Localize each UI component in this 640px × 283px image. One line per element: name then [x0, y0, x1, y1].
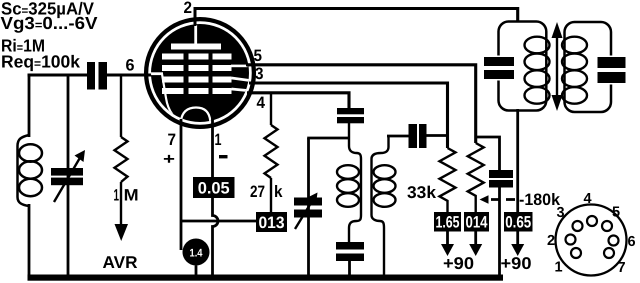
capacitor IF1 top — [337, 108, 364, 123]
trimmer CV2 wire — [307, 138, 310, 276]
IF2 primary capacitor — [484, 57, 514, 79]
tube V1 pin3 lead white — [232, 78, 251, 81]
capacitor C5 — [489, 170, 513, 188]
svg-text:1: 1 — [215, 131, 222, 149]
wire grid return with hop — [181, 220, 256, 223]
coil L1 antenna — [18, 135, 43, 206]
tube V1 pin5 lead white — [231, 65, 248, 68]
wire C4 to R1 — [427, 134, 448, 137]
IF2 transformer secondary box — [565, 22, 617, 112]
svg-text:M: M — [124, 187, 139, 205]
svg-text:0.05: 0.05 — [198, 179, 230, 197]
trimmer CV2 arrow — [295, 193, 318, 230]
svg-text:3: 3 — [557, 205, 565, 221]
svg-text:7: 7 — [168, 131, 177, 149]
svg-text:1: 1 — [114, 187, 120, 205]
variable capacitor CV1 arrow — [54, 150, 85, 202]
svg-text:4: 4 — [257, 94, 266, 112]
svg-text:+: + — [163, 151, 175, 168]
wire antenna branch to bus — [28, 204, 31, 276]
svg-text:5: 5 — [254, 47, 263, 65]
tube V1 pin4 lead white — [232, 89, 248, 91]
wire IF2 primary bottom down — [516, 109, 519, 217]
svg-text:3: 3 — [255, 65, 264, 83]
IF1 transformer secondary — [372, 136, 396, 276]
socket pin mid-left — [566, 235, 576, 245]
socket pin upper-left — [573, 221, 583, 231]
svg-text:0.65: 0.65 — [505, 214, 531, 232]
svg-text:27: 27 — [250, 183, 265, 201]
tube V1 anode plate — [150, 25, 250, 128]
socket pin low-right — [604, 248, 614, 258]
tube V1 grids — [162, 54, 232, 95]
wire pin2 to top rail — [194, 7, 197, 26]
capacitor box 013 — [256, 212, 287, 232]
svg-text:33k: 33k — [407, 183, 437, 202]
wire IF1 bottom to bus — [348, 261, 351, 276]
tube socket — [556, 205, 627, 276]
svg-text:2: 2 — [184, 0, 193, 17]
wire C5 to bus — [498, 188, 501, 277]
svg-text:6: 6 — [126, 57, 135, 75]
wire IF1 secondary to C4 — [387, 135, 409, 138]
svg-text:1.4: 1.4 — [190, 248, 204, 260]
IF2 transformer primary box — [495, 22, 546, 111]
ground bus — [28, 275, 504, 281]
wire C1 to tube pin 6 — [107, 74, 152, 77]
dashed arrow -180k — [480, 195, 516, 204]
arrow +90 middle — [469, 232, 482, 257]
wire top rail to IF2 — [194, 9, 518, 23]
capacitor C1 input — [87, 62, 107, 90]
battery 1.4V — [183, 239, 210, 277]
svg-text:+90: +90 — [443, 254, 474, 273]
trimmer CV2 plates — [294, 198, 322, 218]
IF2 primary loops — [525, 37, 550, 104]
IF1 transformer primary — [337, 123, 361, 242]
wire trimmer to IF1 — [307, 137, 349, 140]
svg-text:Req=100k: Req=100k — [1, 52, 80, 72]
svg-text:k: k — [274, 183, 283, 201]
svg-text:Vg3=0...-6V: Vg3=0...-6V — [1, 13, 98, 33]
capacitor box 0.65 — [504, 212, 533, 232]
capacitor C4 coupling — [409, 124, 427, 148]
wire pin3 to R1 drop — [249, 83, 448, 148]
wire pin1 down to bus — [213, 119, 219, 276]
socket pin mid-right — [609, 236, 619, 246]
svg-text:1.65: 1.65 — [436, 214, 460, 232]
svg-text:1: 1 — [555, 260, 563, 276]
tube V1 pin6 lead white — [150, 72, 163, 75]
resistor R4 27k — [265, 93, 278, 212]
minus sign — [219, 155, 228, 158]
svg-text:2: 2 — [547, 233, 555, 249]
tube V1 cathode — [162, 74, 211, 128]
svg-text:4: 4 — [584, 191, 592, 207]
svg-text:7: 7 — [618, 260, 626, 276]
variable capacitor CV1 branch wire — [67, 74, 70, 276]
svg-text:-180k: -180k — [519, 191, 561, 209]
IF2 secondary loops — [562, 37, 587, 104]
resistor R1 33k — [440, 148, 456, 212]
wire R2 top to C5 — [476, 137, 500, 170]
socket pin top — [587, 216, 597, 226]
svg-text:5: 5 — [612, 205, 620, 221]
tube V1 anode lead white — [194, 25, 197, 44]
resistor R2 180k — [468, 143, 484, 212]
wire pin4 to IF1 top — [247, 93, 349, 108]
variable capacitor CV1 plates — [51, 168, 83, 185]
IF2 secondary capacitor — [598, 57, 626, 83]
IF2 tuning arrow — [552, 22, 563, 111]
svg-text:013: 013 — [259, 214, 285, 232]
svg-text:+90: +90 — [501, 254, 532, 273]
arrow +90 left — [441, 232, 454, 257]
resistor R3 1M — [115, 74, 128, 225]
capacitor box 1.65 — [434, 212, 461, 232]
socket pin upper-right — [602, 221, 612, 231]
svg-text:014: 014 — [466, 214, 489, 232]
capacitor box 0.05 — [193, 177, 235, 198]
svg-text:AVR: AVR — [103, 253, 138, 272]
arrow +90 right — [511, 232, 524, 257]
wire pin7 down to battery — [180, 119, 183, 250]
socket pin low-left — [571, 248, 581, 258]
wire top-left horizontal — [28, 74, 88, 77]
capacitor IF1 bottom — [336, 242, 364, 261]
wire antenna branch down — [28, 74, 31, 137]
arrow AVR — [115, 224, 129, 241]
tube V1 envelope — [146, 19, 254, 127]
svg-text:6: 6 — [628, 234, 636, 250]
wire pin5 to R2 drop — [246, 65, 476, 143]
capacitor box 014 — [464, 212, 489, 232]
